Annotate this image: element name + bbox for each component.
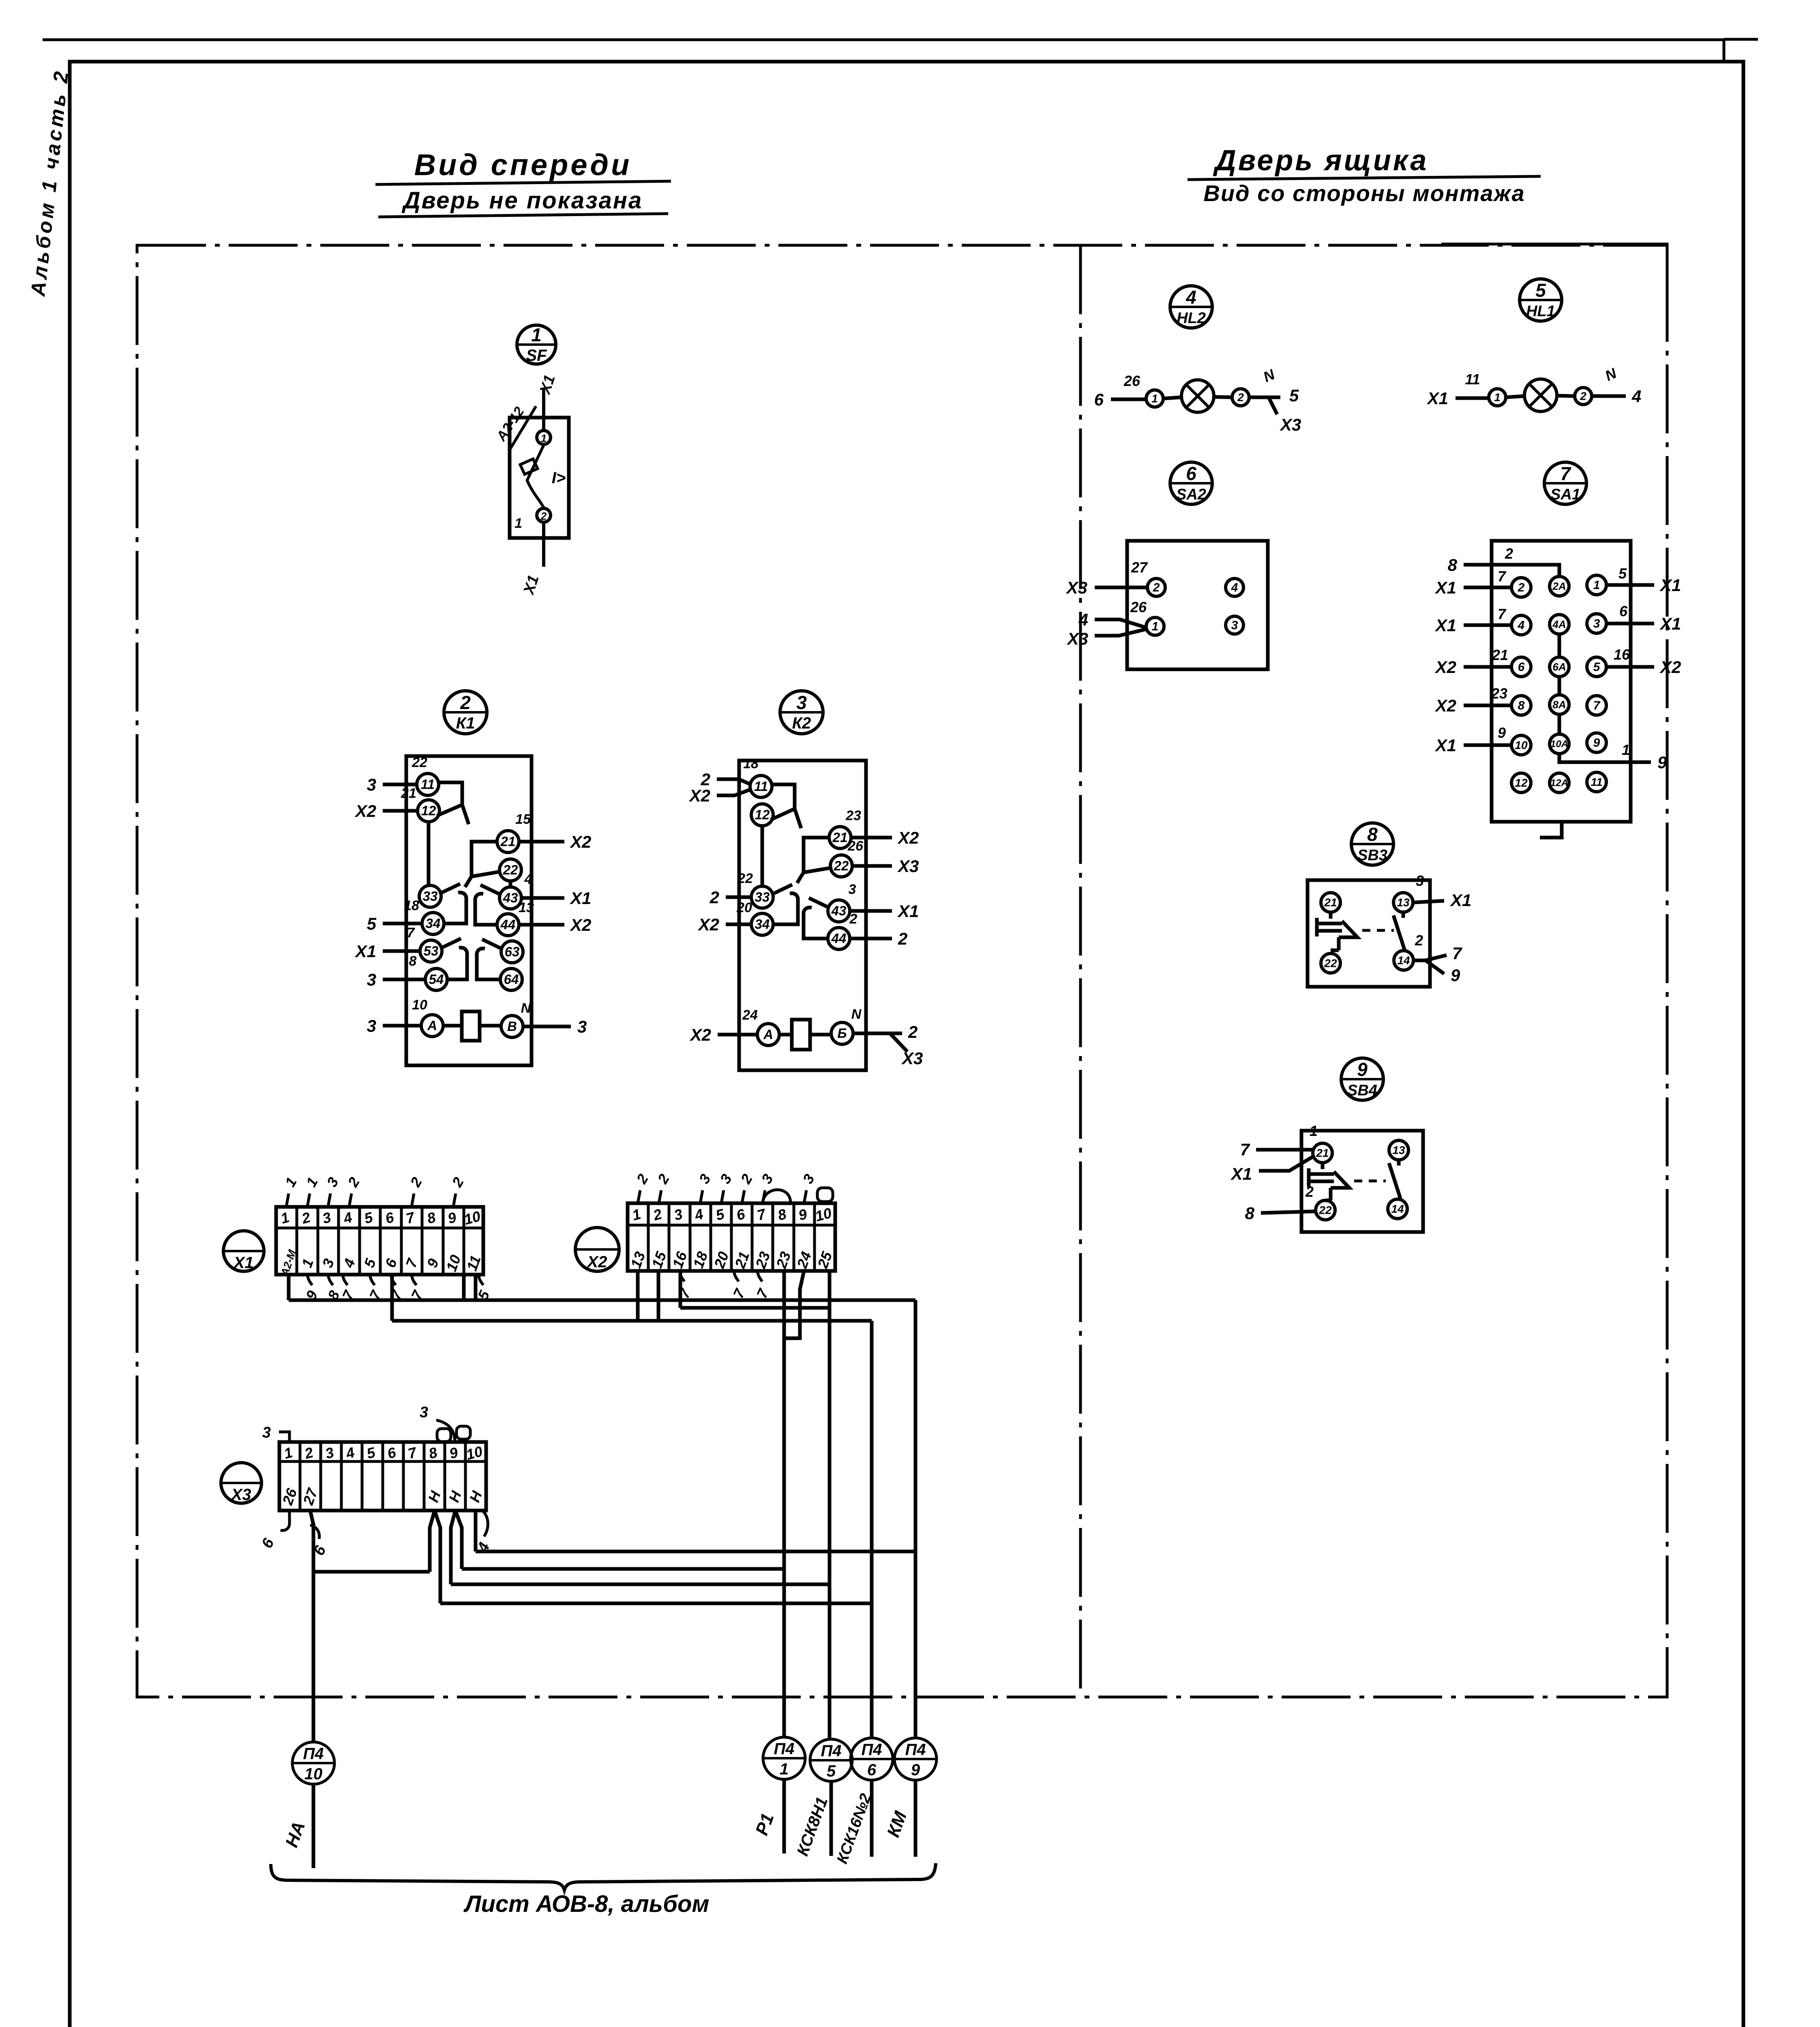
button SB3 body [1308, 880, 1447, 987]
HL2-1 to lamp [1163, 397, 1181, 399]
svg-text:21: 21 [1492, 647, 1508, 663]
K1 NO contact 63-64 [477, 939, 502, 979]
svg-text:Х3: Х3 [897, 857, 919, 876]
svg-text:21: 21 [401, 786, 416, 801]
svg-text:1: 1 [1494, 391, 1501, 404]
svg-text:2: 2 [1415, 932, 1423, 949]
K1 pin 34 [422, 913, 444, 934]
X3 cell 10 wire to P4/9 wire [476, 1511, 915, 1551]
X3 jumper links above cells 9 and 10 [437, 1429, 451, 1442]
HL2 terminal 2 [1232, 389, 1249, 406]
K1 coil [462, 1011, 480, 1041]
wire X1 to K1-53 [383, 949, 420, 953]
svg-text:5: 5 [1289, 386, 1299, 405]
svg-text:43: 43 [503, 890, 518, 905]
K1 coil pin A [421, 1015, 443, 1037]
svg-text:Х2: Х2 [570, 832, 591, 851]
svg-text:22: 22 [737, 871, 753, 886]
SB4 actuator dashed link [1354, 1180, 1386, 1183]
svg-text:3: 3 [367, 775, 376, 794]
svg-text:18: 18 [743, 756, 759, 771]
marker circle 5/HL1 [1520, 279, 1562, 321]
svg-text:К2: К2 [792, 714, 811, 732]
X1 cell numbers and wire labels [279, 1208, 484, 1278]
svg-text:5: 5 [367, 914, 377, 933]
svg-text:5: 5 [1618, 565, 1627, 582]
K2 pin 21 [829, 827, 851, 849]
svg-text:А: А [763, 1027, 773, 1042]
X3 cell divider 9 [464, 1442, 467, 1511]
wire from SF terminal 2 to X1 [542, 522, 545, 567]
K1 pin 54 [425, 969, 447, 990]
wire K1-21 to X2 [519, 840, 564, 844]
X3 cell divider 2 [319, 1442, 322, 1511]
svg-text:4: 4 [1185, 287, 1196, 308]
svg-text:11: 11 [754, 779, 768, 794]
svg-text:64: 64 [504, 972, 519, 987]
K2 pin 44 [828, 928, 850, 949]
svg-text:6А: 6А [1552, 661, 1566, 673]
X2 top jumper loop between cells 7 and 8 [763, 1190, 791, 1203]
svg-text:11: 11 [1591, 776, 1602, 789]
svg-text:Х1: Х1 [1435, 578, 1456, 597]
svg-text:Х3: Х3 [901, 1049, 923, 1068]
svg-text:18: 18 [404, 898, 419, 913]
svg-text:2: 2 [1153, 581, 1160, 594]
X1 cell divider 8 [442, 1207, 445, 1275]
svg-text:21: 21 [500, 834, 516, 849]
K1 NO contact 53-54 [442, 939, 467, 979]
wire КСК16№2 below П4/6 [870, 1780, 874, 1857]
X1 bottom wire stubs with numbers [307, 1275, 483, 1285]
svg-text:1: 1 [1152, 620, 1159, 633]
svg-text:4: 4 [1631, 387, 1641, 406]
marker circle 6/SA2 [1170, 462, 1212, 504]
svg-text:Х2: Х2 [355, 801, 376, 821]
svg-text:13: 13 [1392, 1144, 1405, 1157]
SA2 pin 2 [1147, 579, 1165, 596]
SB3 pin 22 [1321, 954, 1340, 973]
K1 pin 21 [497, 831, 519, 853]
svg-text:7: 7 [1452, 944, 1462, 963]
lamp HL2 symbol [1111, 380, 1280, 414]
svg-text:11: 11 [421, 777, 435, 792]
wire to SF terminal 1 from X1 [542, 388, 545, 431]
X3 bottom hook 6 (cell 1) [281, 1511, 319, 1539]
lamp HL1 symbol [1456, 379, 1626, 411]
svg-text:23: 23 [1491, 685, 1507, 702]
wire K1-43 to X1 [521, 896, 564, 900]
terminal 2 of SF [537, 508, 551, 522]
svg-text:26: 26 [847, 838, 864, 854]
sheet reference П4/1 [763, 1737, 805, 1779]
svg-text:9: 9 [1451, 966, 1460, 985]
X3 top tick with number 3 (cell 1) [279, 1420, 470, 1442]
X2 jumper link above cell 10 [817, 1188, 833, 1202]
svg-text:8А: 8А [1552, 699, 1566, 711]
svg-text:12: 12 [421, 803, 436, 818]
svg-text:7: 7 [1560, 463, 1571, 484]
svg-text:9: 9 [1357, 1059, 1368, 1080]
SA1 pin 10 [1511, 735, 1531, 755]
svg-text:2А: 2А [1552, 580, 1566, 592]
svg-text:1: 1 [780, 1760, 789, 1778]
svg-text:22: 22 [503, 862, 518, 877]
X2 top wire ticks with numbers [638, 1188, 833, 1203]
svg-text:Дверь не показана: Дверь не показана [401, 187, 643, 214]
svg-text:2: 2 [1518, 581, 1525, 594]
svg-text:34: 34 [426, 916, 441, 931]
SA1 bottom tail [1540, 822, 1562, 838]
K1 pin 43 [499, 887, 521, 909]
SA1 pin 10A [1550, 734, 1569, 754]
svg-text:А: А [427, 1018, 437, 1033]
SA1 pin 9 [1587, 733, 1606, 752]
K2 NC contact 21-22 [797, 838, 832, 883]
button SB4 body [1256, 1131, 1423, 1232]
svg-text:Х2: Х2 [570, 915, 591, 934]
X2 cell divider 2 [668, 1203, 671, 1271]
SB4 pin 13 [1389, 1140, 1408, 1160]
lamp to HL2-2 [1214, 397, 1232, 397]
X2 cell 9 branch to P4/1 wire [784, 1271, 804, 1338]
X2 cell divider 8 [793, 1203, 795, 1271]
svg-text:21: 21 [832, 830, 848, 845]
svg-text:SF: SF [526, 347, 547, 364]
svg-text:10: 10 [412, 997, 427, 1013]
svg-text:Х2: Х2 [587, 1253, 607, 1271]
wire K2-22 to X3 [852, 864, 892, 868]
svg-text:2: 2 [849, 911, 857, 927]
svg-text:3: 3 [796, 692, 807, 713]
breaker SF outline box [510, 388, 569, 538]
K1 link 22-43 [509, 881, 512, 887]
svg-text:6: 6 [1186, 463, 1196, 484]
wire HL2-2 to 5/X3 [1249, 397, 1280, 414]
SA1 pin 11 [1587, 772, 1606, 792]
svg-text:54: 54 [429, 972, 444, 987]
svg-text:В: В [507, 1019, 517, 1034]
X1 top wire ticks with numbers [286, 1193, 456, 1207]
svg-text:Х2: Х2 [1435, 658, 1456, 677]
svg-text:20: 20 [736, 900, 752, 915]
X2 bottom hooks with numbers [680, 1271, 762, 1281]
SA1 pin 4A [1550, 615, 1569, 634]
svg-text:3: 3 [1416, 872, 1424, 889]
svg-text:9: 9 [911, 1761, 920, 1779]
svg-text:2: 2 [540, 510, 547, 522]
terminal strip X1 body [276, 1207, 483, 1275]
K2 pin 11 [750, 776, 772, 797]
wire X2 to K2-34 [726, 923, 752, 926]
svg-text:2: 2 [1505, 545, 1513, 562]
svg-text:Х2: Х2 [698, 915, 719, 934]
wires 4 and X3 to SA2-1 [1095, 619, 1146, 636]
svg-text:5: 5 [1535, 280, 1546, 301]
marker circle 8/SB3 [1351, 823, 1393, 865]
X1 cell divider 2 [317, 1207, 319, 1275]
margin note Альбом 1 часть 2 [26, 68, 73, 298]
svg-text:Х2: Х2 [689, 786, 710, 805]
wire K2 coil B to 2 and X3 [853, 1033, 907, 1052]
wire НА below П4/10 [312, 1784, 315, 1868]
K1 pin 53 [420, 940, 442, 962]
K1 coil pin B [501, 1016, 523, 1037]
svg-text:12: 12 [1515, 777, 1528, 789]
svg-text:Х1: Х1 [570, 889, 591, 908]
svg-text:3: 3 [262, 1424, 271, 1441]
svg-text:5: 5 [827, 1762, 836, 1780]
svg-text:Х2: Х2 [1659, 658, 1681, 677]
svg-text:4: 4 [1078, 610, 1088, 629]
svg-text:Х1: Х1 [1450, 891, 1471, 910]
SB4 mushroom actuator [1309, 1163, 1349, 1200]
svg-text:Х2: Х2 [1435, 696, 1456, 715]
SA1 pin 8A [1550, 695, 1569, 714]
svg-text:N: N [851, 1007, 862, 1022]
svg-text:7: 7 [1498, 606, 1507, 622]
X3 cell 8 right wire to P4/6 wire (net) [435, 1511, 872, 1603]
SA1 pin 6 [1511, 657, 1531, 677]
marker circle 9/SB4 [1341, 1058, 1383, 1100]
X3 cell numbers and wire labels [279, 1443, 486, 1508]
K1 pin 22 [499, 859, 521, 881]
SB4 pin 21 [1313, 1143, 1332, 1163]
SA1 pin 2 [1511, 578, 1531, 597]
wire SA1-1 to 5/X1 [1606, 583, 1654, 587]
SB4 NO contact blade [1389, 1160, 1400, 1198]
terminal strip X3 body [279, 1442, 486, 1511]
brace Лист АОВ-8 [271, 1863, 936, 1890]
X1 cell divider 5 [379, 1207, 382, 1275]
door outline solid top-right segment [1441, 244, 1667, 320]
svg-text:13: 13 [519, 900, 534, 915]
wire HL1-2 to N/4 [1592, 394, 1626, 398]
HL1 terminal 1 [1489, 389, 1506, 406]
svg-text:22: 22 [1324, 957, 1337, 970]
svg-text:8: 8 [1518, 699, 1525, 712]
X2 cell numbers and wire labels [627, 1204, 836, 1271]
svg-text:Х2: Х2 [897, 828, 919, 847]
svg-text:3: 3 [849, 882, 856, 897]
wire X2 cell 8 to P4/1 [782, 1271, 786, 1737]
K1 pin 33 [419, 885, 441, 907]
wire X1/11 to HL1-1 [1456, 396, 1489, 400]
svg-text:3: 3 [367, 970, 376, 989]
svg-text:Вид спереди: Вид спереди [414, 148, 632, 182]
sheet reference П4/5 [810, 1739, 852, 1781]
K2 NO contact 43-44 [804, 898, 828, 939]
svg-text:3: 3 [1593, 617, 1600, 630]
X3 hook 6 on cell 2 wire [310, 1525, 319, 1539]
svg-text:8: 8 [1367, 824, 1378, 845]
X3 cell divider 7 [423, 1442, 426, 1511]
X2 cell divider 9 [813, 1203, 816, 1271]
terminal strip X2 body [628, 1203, 835, 1271]
K1 pin 12 [418, 800, 439, 822]
svg-text:Х1: Х1 [233, 1254, 254, 1272]
svg-text:8: 8 [409, 954, 417, 969]
svg-text:SA2: SA2 [1176, 486, 1206, 503]
SB4 pin 14 [1388, 1199, 1407, 1219]
SA1 pin 1 [1587, 575, 1606, 595]
svg-text:1: 1 [1593, 579, 1600, 592]
svg-text:44: 44 [831, 931, 847, 946]
svg-text:Лист АОВ-8, альбом: Лист АОВ-8, альбом [463, 1891, 710, 1917]
X2 sub-row line [680, 1271, 830, 1308]
K2 pin 22 [830, 855, 852, 877]
svg-text:Х1: Х1 [355, 942, 376, 961]
marker circle 1/SF [517, 325, 556, 364]
svg-text:П4: П4 [861, 1741, 882, 1759]
SA1 pin 8 [1511, 696, 1531, 715]
svg-text:Х1: Х1 [1427, 389, 1448, 408]
wires 7 and X1 to SB4-21 [1256, 1150, 1314, 1171]
wires SB3-14 to 7 and 9 [1414, 955, 1447, 974]
svg-text:9: 9 [1593, 736, 1600, 750]
wire Р1 below П4/1 [782, 1779, 786, 1853]
svg-text:12А: 12А [1550, 778, 1568, 789]
K2 coil [792, 1020, 810, 1050]
switch SA1 body [1492, 541, 1631, 822]
svg-text:HL2: HL2 [1177, 310, 1206, 327]
svg-text:22: 22 [1318, 1204, 1332, 1217]
wire SA1-3 to 6/X1 [1606, 622, 1654, 626]
wire 2 to K2-33 [726, 896, 752, 899]
X2 cell 2 wire down [657, 1271, 660, 1321]
panel/door divider line [1079, 245, 1082, 1697]
svg-text:12: 12 [755, 807, 770, 822]
svg-text:4: 4 [1231, 581, 1238, 594]
K1 wire 12 to 33 [427, 821, 431, 886]
svg-text:3: 3 [577, 1017, 587, 1036]
svg-text:1: 1 [1310, 1123, 1318, 1139]
svg-text:I>: I> [552, 469, 566, 487]
svg-text:Х1: Х1 [1435, 616, 1456, 635]
svg-text:Х1: Х1 [1435, 736, 1456, 755]
svg-text:8: 8 [1245, 1204, 1255, 1223]
terminal 1 of SF [537, 431, 551, 444]
svg-text:43: 43 [831, 903, 847, 918]
svg-text:HL1: HL1 [1526, 303, 1555, 320]
svg-text:14: 14 [1391, 1203, 1404, 1215]
svg-text:21: 21 [1324, 896, 1337, 909]
svg-text:SВ3: SВ3 [1357, 847, 1387, 864]
SB3 pin 13 [1393, 893, 1413, 912]
svg-text:4А: 4А [1552, 618, 1566, 630]
K1 pin 63 [501, 941, 523, 963]
svg-text:26: 26 [1130, 599, 1147, 615]
wire 3 to K1-54 [383, 978, 426, 981]
K2 pin 12 [751, 804, 773, 826]
svg-text:24: 24 [742, 1007, 758, 1023]
K1 NC contact 21-22 [465, 842, 500, 887]
SA1 pin 5 [1587, 657, 1606, 677]
lamp to HL1-2 [1557, 396, 1575, 396]
cabinet outline (dash-dot enclosure) [137, 244, 1667, 1697]
wire X1/7 to SA1-2 [1464, 586, 1511, 589]
K2 coil pin A [757, 1024, 779, 1046]
K1 pin 64 [500, 969, 522, 990]
X1 cell divider 1 [296, 1207, 298, 1275]
terminal strip X1 designator circle [223, 1231, 264, 1271]
svg-text:14: 14 [1397, 954, 1410, 967]
svg-text:SA1: SA1 [1550, 486, 1580, 503]
X3 cell divider 3 [340, 1442, 343, 1511]
svg-text:Х1: Х1 [897, 902, 919, 921]
svg-text:53: 53 [424, 943, 439, 958]
X2 cell divider 4 [710, 1203, 712, 1271]
svg-text:7: 7 [1593, 699, 1601, 712]
wire 3 to K1 coil A [383, 1024, 422, 1028]
svg-text:7: 7 [407, 925, 416, 941]
wire X3 cell 2 to P4/10 [310, 1511, 313, 1742]
X2 cell 1 wire down [636, 1271, 640, 1321]
title Вид спереди / Дверь не показана [401, 148, 643, 214]
svg-text:10А: 10А [1550, 739, 1568, 750]
SA1 pin 4 [1511, 615, 1531, 635]
SB3 actuator dashed link [1362, 929, 1394, 932]
marker circle 7/SA1 [1544, 462, 1586, 504]
svg-text:Х1: Х1 [1659, 614, 1681, 633]
svg-text:1: 1 [1622, 741, 1630, 758]
SA1 pin 6A [1550, 657, 1569, 677]
svg-text:2: 2 [1305, 1183, 1314, 1200]
SA1 pin 3 [1587, 614, 1606, 633]
svg-text:22: 22 [834, 858, 849, 873]
X3 cell 9 left wire to P4/5 wire [451, 1511, 830, 1584]
svg-text:6: 6 [867, 1761, 877, 1779]
svg-text:4: 4 [524, 872, 532, 887]
K2 wire 12 to 33 [761, 825, 764, 887]
svg-text:SВ4: SВ4 [1347, 1082, 1377, 1099]
wire 5 to K1-34 [383, 922, 422, 926]
svg-text:2: 2 [1237, 391, 1244, 404]
K1 NO contact 43-44 [475, 885, 500, 925]
svg-text:9: 9 [1498, 724, 1506, 741]
svg-text:5: 5 [1593, 660, 1601, 674]
svg-text:7: 7 [1240, 1140, 1250, 1159]
switch SA2 body [1095, 541, 1268, 669]
X3 cell divider 1 [299, 1442, 302, 1511]
wire SB3-13 to X1 [1414, 901, 1444, 902]
HL1-1 to lamp [1506, 396, 1524, 397]
svg-text:П4: П4 [303, 1745, 324, 1763]
wire K2-21 to X2 [851, 836, 892, 840]
terminal strip X2 designator circle [575, 1228, 619, 1271]
svg-text:26: 26 [1123, 373, 1140, 389]
svg-text:21: 21 [1316, 1147, 1329, 1159]
svg-text:6: 6 [1518, 660, 1525, 674]
svg-text:7: 7 [1498, 568, 1507, 585]
wire SA1-10A to 9 [1559, 754, 1651, 762]
terminal strip X3 designator circle [221, 1463, 262, 1503]
svg-text:1: 1 [514, 516, 522, 531]
svg-text:Х3: Х3 [1280, 415, 1301, 434]
svg-text:13: 13 [1397, 896, 1410, 909]
wire X2/21 to SA1-6 [1464, 665, 1511, 669]
SA1 pin 2A [1550, 576, 1569, 596]
svg-text:Х1: Х1 [1230, 1164, 1252, 1183]
svg-text:Дверь ящика: Дверь ящика [1213, 144, 1429, 177]
X3 cell divider 4 [361, 1442, 364, 1511]
X3 cell 9 right wire to P4/1 wire [455, 1511, 784, 1569]
wire КСК8Н1 below П4/5 [830, 1781, 833, 1856]
svg-text:33: 33 [423, 889, 438, 904]
K2 coil pin B [831, 1022, 853, 1044]
X1 cell divider 9 [463, 1207, 465, 1275]
SA2 pin 1 [1146, 617, 1164, 635]
